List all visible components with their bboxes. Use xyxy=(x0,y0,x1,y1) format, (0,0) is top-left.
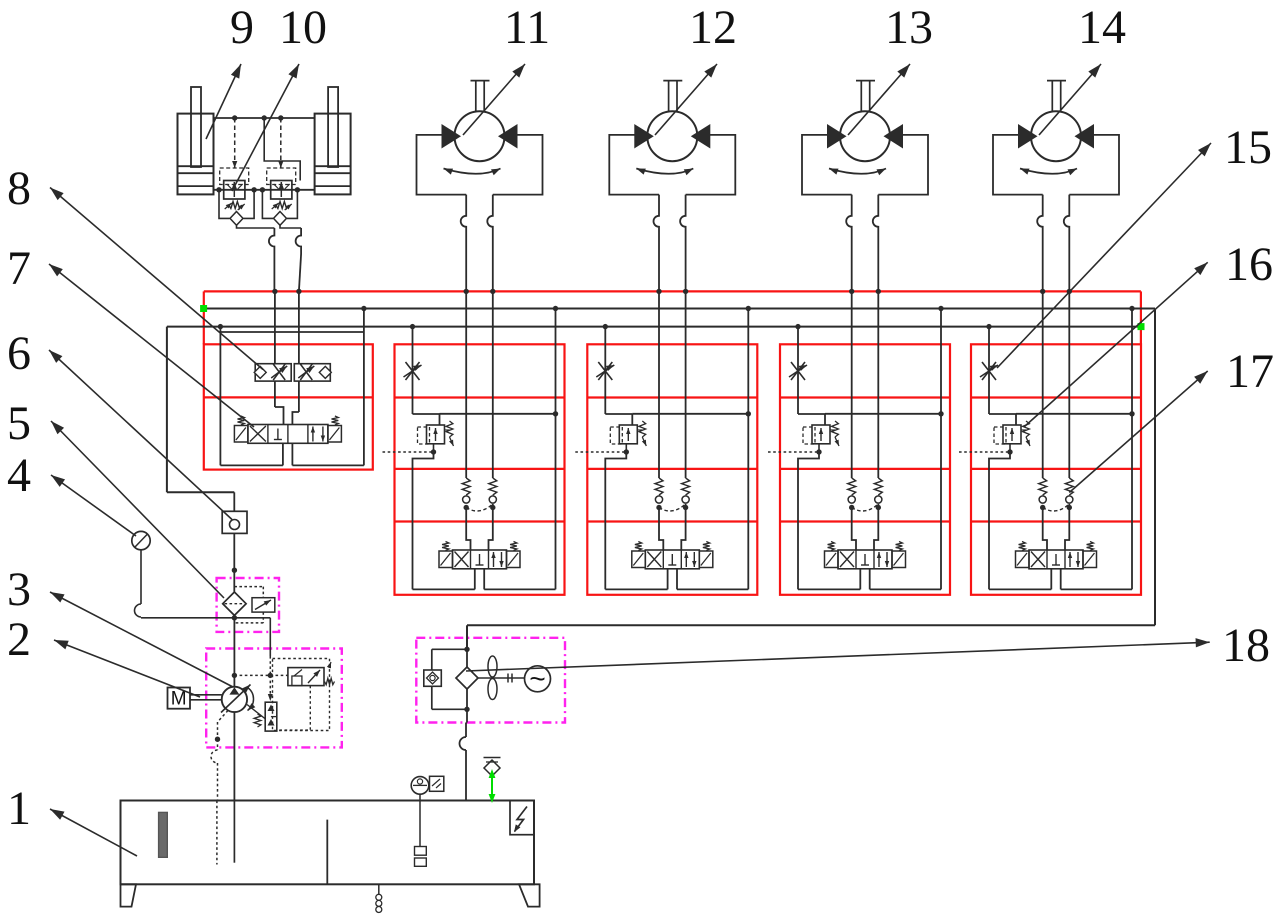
section3 pressure compensator 16 xyxy=(610,421,646,446)
cooler drive motor xyxy=(525,663,551,694)
section3 A line xyxy=(656,289,661,478)
section3 A to valve xyxy=(659,508,663,551)
pump case drain dotted xyxy=(211,711,228,801)
cylinder bottom pipe xyxy=(214,187,315,192)
hydraulic motor 14 xyxy=(993,81,1119,292)
valve section 4 red box xyxy=(780,344,950,595)
section4 throttle valve 15 xyxy=(789,362,807,380)
manifold frame top red line xyxy=(204,291,1141,344)
section3 compensator drain path xyxy=(605,444,629,590)
section2 pressure compensator 16 xyxy=(418,421,454,446)
pump unit 3 magenta box xyxy=(206,649,342,748)
hydraulic motor 11 xyxy=(417,81,543,292)
section5 A line xyxy=(1040,289,1045,478)
hydraulic cylinder 9 left xyxy=(178,87,214,194)
section2 throttle valve 15 xyxy=(404,362,422,380)
return line right leg to cooler xyxy=(467,309,1155,650)
section3 throttle valve 15 xyxy=(596,362,614,380)
section1 inner housing xyxy=(218,306,367,466)
label 2 xyxy=(7,613,200,697)
hydraulic motor 13 xyxy=(802,81,928,292)
section2 B line xyxy=(490,289,495,478)
svg-text:14: 14 xyxy=(1078,1,1126,54)
pump suction into tank xyxy=(233,801,235,863)
label 9 xyxy=(206,1,254,139)
filter unit 5 magenta box xyxy=(217,578,279,632)
label 14 xyxy=(1039,1,1126,135)
svg-text:12: 12 xyxy=(689,1,737,54)
svg-text:15: 15 xyxy=(1224,121,1272,174)
label 1 xyxy=(7,782,137,856)
label 16 xyxy=(1024,238,1273,427)
svg-text:16: 16 xyxy=(1225,238,1273,291)
section3 load-sense line xyxy=(632,411,751,416)
section5 throttle valve 15 xyxy=(980,362,998,380)
section2 A to valve xyxy=(466,508,470,551)
section5 return line right xyxy=(1129,306,1134,590)
svg-text:9: 9 xyxy=(230,1,254,54)
filter 5 xyxy=(223,592,246,615)
variable pump 3 xyxy=(221,685,255,713)
section2 compensator drain path xyxy=(413,444,437,590)
tank drain xyxy=(376,884,382,912)
section3 pilot check B 17 xyxy=(682,478,690,510)
label 8 xyxy=(7,162,263,370)
section3 B line xyxy=(683,289,688,478)
section1 B line xyxy=(292,289,301,425)
electric motor M 2 xyxy=(168,688,222,710)
supply line filter to pump xyxy=(233,615,235,687)
section2 A line xyxy=(464,289,469,478)
section4 P supply line xyxy=(795,324,825,425)
section5 pilot cross dashed xyxy=(1043,504,1070,511)
section4 pilot check A 17 xyxy=(848,478,856,510)
section5 pilot check B 17 xyxy=(1065,478,1073,510)
valve section 1 red box xyxy=(204,344,373,469)
label 12 xyxy=(655,1,737,135)
label 11 xyxy=(463,1,550,135)
label 13 xyxy=(848,1,933,135)
tank heater xyxy=(510,801,534,835)
section2 pilot check B 17 xyxy=(489,478,497,510)
section2 directional valve xyxy=(439,542,520,569)
svg-text:2: 2 xyxy=(7,613,31,666)
hydraulic motor 12 xyxy=(609,81,735,292)
section5 B line xyxy=(1067,289,1072,478)
section5 pressure compensator 16 xyxy=(994,421,1030,446)
section2 P supply line xyxy=(410,324,440,425)
section4 B line xyxy=(876,289,881,478)
cb bypass check right xyxy=(262,190,297,226)
pump outlet to tank suction xyxy=(233,712,235,800)
section4 compensator drain path xyxy=(798,444,822,590)
section2 valve outlets and housing bottom xyxy=(413,569,556,590)
section3 B to valve xyxy=(681,504,685,550)
section5 P supply line xyxy=(986,324,1016,425)
section5 valve outlets and housing bottom xyxy=(989,569,1132,590)
svg-text:5: 5 xyxy=(7,397,31,450)
svg-text:17: 17 xyxy=(1226,345,1274,398)
section2 pilot dotted stub xyxy=(383,451,434,453)
svg-text:3: 3 xyxy=(7,563,31,616)
section4 B to valve xyxy=(874,504,878,550)
section4 valve outlets and housing bottom xyxy=(798,569,941,590)
directional valve 7 xyxy=(234,416,341,443)
pump control pilot circuit xyxy=(232,673,288,701)
section2 pilot cross dashed xyxy=(466,504,493,511)
green marker left bus end xyxy=(201,306,207,312)
suction dotted into tank xyxy=(216,801,218,865)
cb pilot dashed line left xyxy=(232,118,237,168)
cooler 18 xyxy=(456,649,478,722)
flow control valve 8 left xyxy=(254,364,291,381)
cooler fan xyxy=(478,656,525,700)
tank 1 xyxy=(121,801,540,907)
section3 return line right xyxy=(746,306,751,590)
supply junction dot xyxy=(232,568,237,573)
svg-text:8: 8 xyxy=(7,162,31,215)
cylinder rod-end pipe xyxy=(214,115,315,120)
check valve 6 xyxy=(222,492,247,591)
valve section 2 red box xyxy=(395,344,565,595)
cooler bypass filter xyxy=(424,647,470,712)
tank baffle xyxy=(326,820,328,885)
valve section 3 red box xyxy=(587,344,757,595)
svg-text:10: 10 xyxy=(279,1,327,54)
section5 load-sense line xyxy=(1016,411,1135,416)
section4 pressure compensator 16 xyxy=(803,421,839,446)
section3 directional valve xyxy=(632,542,713,569)
label 6 xyxy=(7,327,232,520)
hose line B to section1 xyxy=(280,225,301,291)
svg-text:18: 18 xyxy=(1222,619,1270,672)
pressure bus line (lower) xyxy=(167,326,1141,328)
breather green arrows xyxy=(489,769,496,803)
section4 A to valve xyxy=(852,508,856,551)
pump pilot dotted loop xyxy=(277,686,310,731)
pressure gauge 4 xyxy=(132,531,237,620)
filter bypass valve xyxy=(234,587,274,623)
section3 pilot dotted stub xyxy=(575,451,626,453)
section4 pilot dotted stub xyxy=(768,451,819,453)
section2 return line right xyxy=(553,306,558,590)
cooler outlet hose to tank xyxy=(460,723,467,867)
pump pilot valve xyxy=(288,662,335,686)
flow control valve 8 right xyxy=(294,364,331,381)
counterbalance valve 10 right xyxy=(267,168,296,210)
svg-text:4: 4 xyxy=(7,449,31,502)
pump pilot supply from filter line xyxy=(234,618,270,676)
section2 B to valve xyxy=(489,504,493,550)
label 15 xyxy=(997,121,1272,368)
pressure bus left leg down to pump line xyxy=(167,327,234,493)
section3 pilot cross dashed xyxy=(659,504,686,511)
svg-text:7: 7 xyxy=(7,242,31,295)
cb bypass check left xyxy=(219,190,254,226)
label 10 xyxy=(232,1,327,191)
valve section 5 red box xyxy=(971,344,1141,595)
green marker right bus end xyxy=(1138,324,1144,330)
level gauge xyxy=(411,776,444,866)
tank filler bar xyxy=(159,812,168,857)
section4 return line right xyxy=(938,306,943,590)
section5 A to valve xyxy=(1043,508,1047,551)
section1 A line xyxy=(272,289,283,425)
cb pilot dashed line right xyxy=(278,118,283,168)
counterbalance valve 10 left xyxy=(220,168,249,210)
section2 load-sense line xyxy=(440,411,559,416)
section3 valve outlets and housing bottom xyxy=(605,569,748,590)
label 4 xyxy=(7,449,136,536)
section3 P supply line xyxy=(603,324,633,425)
section2 pilot check A 17 xyxy=(462,478,470,510)
section5 directional valve xyxy=(1016,542,1097,569)
section4 load-sense line xyxy=(825,411,944,416)
label 7 xyxy=(7,242,254,427)
cooler unit 18 magenta box xyxy=(416,638,565,723)
label 17 xyxy=(1069,345,1274,493)
cb cross link line xyxy=(264,118,300,181)
section5 B to valve xyxy=(1065,504,1069,550)
svg-text:13: 13 xyxy=(885,1,933,54)
label 18 xyxy=(466,619,1270,672)
section5 pilot dotted stub xyxy=(959,451,1010,453)
hose line A to section1 xyxy=(237,225,275,291)
svg-text:6: 6 xyxy=(7,327,31,380)
section4 A line xyxy=(849,289,854,478)
LS/return bus line (upper) xyxy=(204,308,1155,310)
section5 compensator drain path xyxy=(989,444,1013,590)
svg-text:11: 11 xyxy=(504,1,550,54)
label 3 xyxy=(7,563,233,687)
label 5 xyxy=(7,397,224,598)
pump compensator valve xyxy=(247,702,277,731)
section5 pilot check A 17 xyxy=(1039,478,1047,510)
svg-text:1: 1 xyxy=(7,782,31,835)
breather xyxy=(484,758,501,777)
section4 pilot cross dashed xyxy=(852,504,879,511)
section4 directional valve xyxy=(825,542,906,569)
pump control dotted enclosure xyxy=(273,659,330,731)
hydraulic cylinder 9 right xyxy=(315,87,351,194)
section3 pilot check A 17 xyxy=(655,478,663,510)
section4 pilot check B 17 xyxy=(874,478,882,510)
